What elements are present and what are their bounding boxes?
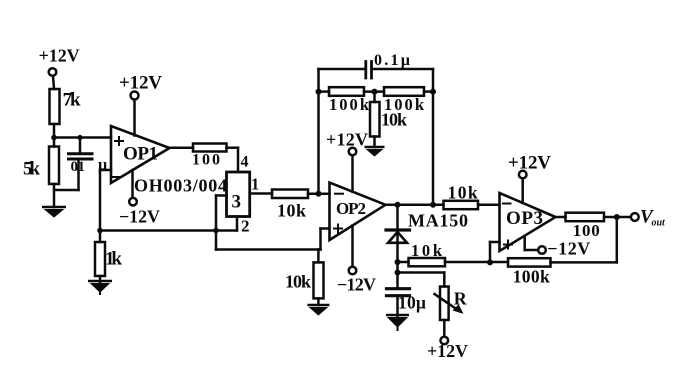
svg-text:1: 1 [251, 175, 259, 194]
svg-text:10k: 10k [411, 241, 443, 260]
svg-text:100k: 100k [329, 95, 370, 114]
svg-text:100k: 100k [513, 267, 550, 287]
svg-text:+12V: +12V [427, 341, 468, 361]
svg-text:100: 100 [192, 152, 220, 169]
svg-text:0.1: 0.1 [71, 159, 86, 175]
svg-text:+12V: +12V [326, 130, 368, 150]
svg-text:out: out [652, 218, 667, 229]
svg-text:2: 2 [241, 217, 250, 236]
svg-text:OP2: OP2 [336, 199, 366, 218]
svg-text:4: 4 [241, 154, 249, 171]
svg-text:OP3: OP3 [506, 208, 543, 229]
svg-text:+12V: +12V [119, 73, 162, 94]
svg-text:MA150: MA150 [408, 211, 468, 231]
svg-text:10k: 10k [285, 272, 311, 292]
svg-text:7k: 7k [63, 90, 81, 111]
svg-text:+12V: +12V [508, 153, 551, 174]
svg-text:+12V: +12V [39, 46, 80, 66]
svg-text:−12V: −12V [547, 239, 590, 259]
svg-text:10k: 10k [448, 183, 478, 203]
svg-text:−12V: −12V [119, 207, 160, 227]
svg-text:−12V: −12V [337, 275, 376, 295]
svg-text:µ: µ [98, 157, 107, 174]
svg-text:3: 3 [232, 192, 242, 213]
svg-text:5k: 5k [23, 159, 40, 180]
svg-text:100: 100 [573, 221, 600, 240]
svg-text:1k: 1k [105, 249, 122, 270]
svg-text:10k: 10k [381, 110, 407, 130]
svg-text:R: R [454, 289, 468, 309]
svg-text:10µ: 10µ [398, 293, 426, 313]
svg-text:10k: 10k [277, 201, 306, 221]
svg-text:0.1µ: 0.1µ [374, 52, 410, 69]
svg-text:OH003/004: OH003/004 [134, 176, 227, 196]
svg-text:OP1: OP1 [123, 144, 158, 165]
